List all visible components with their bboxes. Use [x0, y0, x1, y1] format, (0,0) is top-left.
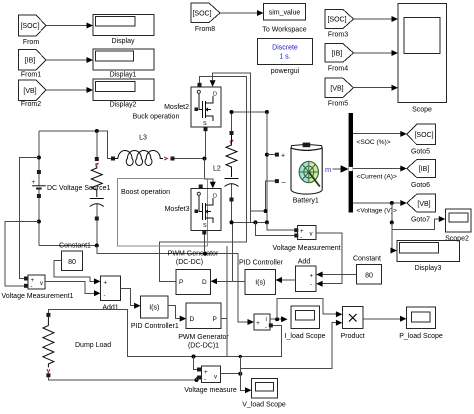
wire From2 to Display2 — [46, 87, 93, 93]
Battery1 — [291, 143, 322, 205]
svg-text:Discrete: Discrete — [272, 45, 298, 52]
svg-text:From8: From8 — [195, 26, 215, 33]
svg-text:P: P — [179, 279, 183, 286]
From4 [IB] — [325, 44, 354, 73]
inductor L3 — [111, 135, 175, 166]
node vmeasure branch on dump wire — [239, 355, 242, 358]
powergui — [258, 39, 313, 76]
svg-text:DC Voltage Source1: DC Voltage Source1 — [47, 185, 111, 192]
svg-text:-: - — [310, 283, 312, 289]
wire PWM gate wire to Mosfet2 — [159, 77, 246, 282]
Mosfet2 — [133, 87, 221, 127]
From2 [VB] — [18, 80, 46, 108]
svg-text:Voltage Measurement: Voltage Measurement — [272, 245, 340, 252]
svg-text:I(s): I(s) — [255, 280, 265, 287]
svg-text:V_load Scope: V_load Scope — [242, 402, 286, 409]
svg-text:-: - — [265, 325, 267, 331]
svg-text:Boost operation: Boost operation — [121, 189, 170, 196]
svg-text:D: D — [202, 279, 207, 286]
svg-text:I_load Scope: I_load Scope — [285, 333, 326, 340]
wire current to Product — [277, 298, 337, 319]
To Workspace — [262, 4, 306, 34]
wire From8 to To Workspace — [220, 10, 264, 16]
svg-text:-: - — [204, 377, 206, 383]
svg-text:v: v — [310, 232, 313, 238]
node left rail upper — [37, 156, 41, 160]
node Mosfet3 source junction — [203, 252, 207, 256]
wire bus to Goto7 — [353, 200, 407, 215]
wire top rail — [39, 131, 111, 159]
svg-text:Battery1: Battery1 — [293, 198, 319, 205]
wire Product to P_load Scope — [363, 318, 402, 320]
Scope — [398, 4, 447, 114]
wire bottom rail continuation — [97, 246, 249, 323]
svg-text:1 s.: 1 s. — [279, 54, 290, 61]
wire VM1 plus — [19, 158, 39, 279]
svg-text:P: P — [213, 316, 217, 323]
node bottom rail — [95, 244, 99, 248]
wire Constant1-80 to Add1 plus — [54, 261, 96, 282]
V_load Scope — [242, 379, 286, 409]
wire v to product (long) — [239, 357, 241, 374]
Constant1 80 block — [61, 251, 82, 271]
Mosfet2 source port pad — [204, 127, 208, 131]
PWM Generator (DC-DC)1 — [178, 303, 229, 349]
svg-text:L2: L2 — [213, 166, 221, 173]
svg-text:[SOC]: [SOC] — [20, 23, 39, 30]
wire to Voltage Measurement minus — [255, 222, 294, 235]
Voltage measure — [184, 366, 237, 394]
Goto5 [SOC] — [407, 124, 436, 155]
Dump Load — [43, 313, 111, 377]
Goto7 [VB] — [407, 194, 436, 223]
svg-text:From5: From5 — [328, 101, 348, 108]
wire Mosfet2 drain feed (over the top) — [213, 73, 251, 112]
svg-text:Product: Product — [341, 333, 365, 340]
svg-text:+: + — [104, 281, 108, 287]
Goto6 [IB] — [407, 160, 436, 189]
Boost operation box — [117, 179, 207, 247]
svg-text:D: D — [213, 194, 217, 200]
svg-text:Display3: Display3 — [415, 265, 442, 272]
svg-text:Constant: Constant — [353, 256, 381, 263]
wire VM1 minus — [5, 222, 39, 286]
svg-text:From3: From3 — [328, 32, 348, 39]
wire L3 to switch node — [175, 158, 205, 160]
wire minus down to rail — [250, 112, 252, 222]
node rail222 a — [230, 220, 234, 224]
wire bottom rail — [39, 245, 97, 247]
Mosfet3 gate pad — [199, 185, 203, 189]
svg-text:[SOC]: [SOC] — [192, 11, 211, 18]
svg-text:m: m — [325, 165, 331, 174]
node dump to vmeasure — [192, 355, 196, 359]
svg-text:<Voltage (V)>: <Voltage (V)> — [357, 208, 397, 215]
svg-text:+: + — [256, 321, 260, 327]
wire From1 to Display1 — [46, 57, 93, 63]
Display3 — [397, 241, 460, 273]
Mosfet3 source pad — [202, 231, 206, 235]
wire Add1 to PID1 — [120, 288, 136, 305]
wire left rail — [38, 131, 40, 246]
PWM Generator (DC-DC) — [176, 270, 211, 295]
Add1 — [101, 276, 121, 311]
node vmeasure out — [238, 372, 242, 376]
svg-text:v: v — [40, 281, 43, 287]
wire to Scope2 — [392, 203, 441, 229]
svg-text:-: - — [31, 284, 33, 290]
Mosfet2 gate pad — [198, 83, 202, 87]
I_load Scope — [285, 306, 326, 340]
wire PID1 to PWM1 D — [168, 305, 182, 318]
node switch node — [203, 157, 207, 161]
svg-text:S: S — [203, 223, 207, 229]
svg-text:S: S — [203, 121, 207, 127]
node top-rail junction — [95, 129, 99, 133]
wire to Voltage measure plus — [194, 357, 198, 370]
svg-text:D: D — [190, 316, 195, 323]
svg-text:(DC-DC)1: (DC-DC)1 — [188, 343, 219, 350]
Mosfet3 — [165, 189, 221, 231]
node Scope2 split — [390, 221, 394, 225]
wire rail222 down to PID wire — [232, 222, 234, 281]
svg-text:Mosfet3: Mosfet3 — [165, 206, 190, 213]
svg-text:<Current (A)>: <Current (A)> — [357, 174, 397, 181]
svg-text:From: From — [23, 39, 40, 46]
svg-text:PWM Generator: PWM Generator — [168, 251, 219, 258]
series RLC branch R C (left) — [90, 131, 104, 246]
svg-text:Mosfet2: Mosfet2 — [164, 104, 189, 111]
svg-text:Goto5: Goto5 — [411, 149, 430, 156]
svg-text:+: + — [310, 274, 314, 280]
svg-text:i: i — [266, 317, 267, 323]
wire dump load top — [48, 309, 281, 356]
wire From3 to Scope — [354, 16, 399, 22]
Add block — [296, 266, 317, 292]
node rail right — [265, 110, 269, 114]
wire From5 to Scope — [354, 85, 399, 91]
Display1 — [93, 49, 154, 79]
Display2 — [93, 79, 154, 109]
Scope2 — [445, 209, 471, 243]
Current Measurement — [254, 314, 270, 331]
DC Voltage Source1 — [32, 170, 111, 198]
wire to Voltage measure minus — [196, 378, 199, 381]
wire m to bus — [333, 168, 342, 170]
svg-text:[IB]: [IB] — [332, 51, 343, 58]
PID Controller — [245, 270, 275, 295]
From3 [SOC] — [325, 9, 354, 38]
bus selector bar — [349, 113, 353, 213]
svg-text:Display2: Display2 — [110, 102, 137, 109]
svg-text:[VB]: [VB] — [330, 86, 343, 93]
Display — [93, 15, 154, 46]
svg-text:80: 80 — [68, 259, 76, 266]
svg-text:Goto7: Goto7 — [411, 217, 430, 224]
svg-text:To Workspace: To Workspace — [262, 27, 306, 34]
svg-text:[VB]: [VB] — [417, 201, 430, 208]
node rail222 b — [253, 220, 257, 224]
From8 [SOC] — [191, 3, 220, 33]
wire vmeasure v output — [221, 373, 241, 375]
P_load Scope — [399, 307, 443, 340]
svg-text:Buck operation: Buck operation — [133, 114, 180, 121]
wire to battery plus — [267, 154, 275, 156]
wire dump load bottom — [48, 377, 196, 380]
svg-text:I(s): I(s) — [149, 305, 159, 312]
svg-text:-: - — [104, 294, 106, 300]
svg-text:[IB]: [IB] — [25, 58, 36, 65]
node rail left — [230, 110, 234, 114]
wire VM v to Add minus — [316, 233, 342, 284]
From5 [VB] — [325, 78, 354, 107]
svg-text:Voltage measure: Voltage measure — [184, 387, 237, 394]
svg-text:+: + — [32, 180, 36, 186]
wire Add output to PID — [281, 279, 296, 281]
wire node rail y112 — [232, 111, 267, 113]
node dump bottom split — [195, 378, 199, 382]
node left rail lower — [37, 220, 41, 224]
node rail222 c — [265, 220, 269, 224]
wire to Voltage Measurement plus — [267, 222, 294, 230]
svg-text:[SOC]: [SOC] — [414, 132, 433, 139]
From [SOC] — [18, 15, 46, 46]
node Goto7 wire — [390, 201, 394, 205]
svg-text:Dump Load: Dump Load — [75, 342, 111, 349]
Voltage Measurement1 — [2, 275, 74, 300]
svg-text:sim_value: sim_value — [269, 10, 301, 17]
svg-text:(DC-DC): (DC-DC) — [176, 259, 203, 266]
svg-text:Add: Add — [298, 259, 311, 266]
svg-text:[VB]: [VB] — [23, 88, 36, 95]
svg-text:D: D — [213, 92, 217, 98]
wire VM1 v to Add1 minus — [45, 281, 95, 293]
wire From to Display — [46, 23, 93, 29]
wire From4 to Scope — [354, 50, 399, 56]
svg-text:Goto6: Goto6 — [411, 182, 430, 189]
wire Constant to Add plus — [322, 274, 357, 276]
wire current meter output — [270, 318, 283, 320]
wire Mosfet2 source to switch node — [205, 131, 207, 156]
wire rail y222 — [232, 221, 267, 223]
svg-text:-: - — [300, 235, 302, 241]
svg-text:powergui: powergui — [271, 68, 300, 75]
svg-text:Scope: Scope — [412, 107, 432, 114]
svg-text:PWM Generator: PWM Generator — [178, 334, 229, 341]
node battery plus — [265, 153, 269, 157]
node current out — [275, 317, 279, 321]
svg-text:Display: Display — [112, 38, 135, 45]
svg-text:[IB]: [IB] — [419, 166, 430, 173]
svg-text:<SOC (%)>: <SOC (%)> — [357, 139, 391, 146]
svg-text:–: – — [282, 179, 286, 186]
wire PWM1 P output — [221, 319, 227, 357]
Product — [341, 306, 365, 339]
wire battery plus vertical — [266, 112, 268, 222]
wire bus to Goto6 — [353, 166, 407, 181]
svg-text:80: 80 — [365, 273, 373, 280]
wire to Display3 — [392, 223, 393, 251]
svg-text:Display1: Display1 — [110, 72, 137, 79]
svg-text:From2: From2 — [21, 101, 41, 108]
svg-text:L3: L3 — [139, 135, 147, 142]
svg-text:[SOC]: [SOC] — [327, 17, 346, 24]
From1 [IB] — [18, 50, 46, 79]
svg-text:PID Controller: PID Controller — [239, 260, 284, 267]
svg-text:PID Controller1: PID Controller1 — [131, 323, 179, 330]
svg-text:+: + — [204, 370, 208, 376]
wire Mosfet3 source down to bottom rail — [203, 235, 205, 254]
wire switch node down to Mosfet3 drain — [205, 159, 213, 184]
svg-text:P_load Scope: P_load Scope — [399, 333, 443, 340]
Constant 80 block — [357, 265, 382, 285]
Voltage Measurement — [272, 225, 340, 251]
wire battery minus — [251, 181, 275, 211]
wire v to V_load Scope — [240, 374, 246, 391]
svg-text:From4: From4 — [328, 66, 348, 73]
svg-text:Add1: Add1 — [102, 305, 118, 312]
svg-text:Constant1: Constant1 — [59, 243, 91, 250]
PID Controller1 — [131, 296, 179, 330]
node minus corner — [264, 209, 268, 213]
svg-text:+: + — [281, 153, 285, 160]
wire PID to PWM D — [216, 280, 245, 282]
svg-text:Scope2: Scope2 — [445, 236, 469, 243]
wire bus to Goto5 — [353, 131, 407, 146]
svg-text:v: v — [214, 375, 217, 381]
svg-text:Voltage Measurement1: Voltage Measurement1 — [2, 293, 74, 300]
svg-text:From1: From1 — [21, 72, 41, 79]
series RLC branch R C (middle) — [225, 112, 239, 222]
